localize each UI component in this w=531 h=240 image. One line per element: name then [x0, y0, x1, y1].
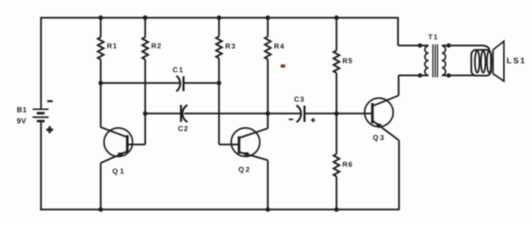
- wire: secondary top to speaker: [449, 46, 490, 52]
- wire: C1 to R3 bottom: [184, 82, 220, 84]
- wire: R1 top lead: [100, 18, 102, 38]
- wire: C2 to Q2 collector node (crosses Q2 base wire, no connection): [184, 113, 268, 115]
- wire: left column bottom (battery to bottom rail): [40, 122, 42, 211]
- wire: secondary bottom to speaker: [449, 74, 475, 76]
- resistor R2: [142, 37, 148, 59]
- wire: R5 bottom lead: [336, 73, 338, 114]
- top supply rail (negative): [40, 17, 398, 19]
- label R1: [107, 43, 116, 48]
- wire: R1 bottom to C1: [101, 82, 180, 84]
- wire: R2 top lead: [144, 18, 146, 38]
- capacitor C1 (curved + straight plate): [176, 76, 183, 92]
- node: top rail / R5 junction: [334, 15, 339, 20]
- label B1: [17, 107, 26, 112]
- wire: left column top (battery to top rail): [40, 17, 42, 109]
- Q1 emitter arrow (PNP, points to base bar): [118, 152, 125, 157]
- node: R3 bottom / C1 / Q2 base: [217, 81, 222, 86]
- speaker LS1 voice-coil body: [471, 50, 491, 76]
- node: Q2 emitter / bottom rail: [266, 207, 271, 212]
- resistor R3: [216, 37, 222, 59]
- transistor Q3 (PNP, base left): [365, 98, 394, 141]
- bottom supply rail (positive): [40, 209, 399, 211]
- wire: Q1 emitter to bottom rail: [101, 151, 128, 209]
- wire: Q1 collector to R1/C1 node: [101, 83, 128, 138]
- transformer T1 core: [433, 44, 438, 77]
- transistor Q1 (PNP, base right): [104, 128, 133, 175]
- wire: top rail to transformer primary top: [398, 17, 420, 46]
- wire: R5 top lead: [336, 18, 338, 51]
- node: top rail / R4 junction: [266, 15, 271, 20]
- node: R6 bottom / bottom rail: [334, 207, 339, 212]
- Q3 emitter arrow (PNP, points to base bar): [375, 122, 382, 128]
- resistor R4: [265, 37, 271, 60]
- node: Q1 emitter / bottom rail: [98, 207, 103, 212]
- wire: Q2 collector node to C3: [268, 113, 301, 115]
- wire: Q1 base lead and down from R2/C2 node: [127, 114, 145, 145]
- node: R5 bottom / R6 top / C3 / Q3 base: [334, 111, 339, 116]
- C3 plus polarity sign: [311, 118, 315, 122]
- wire: Q3 emitter to bottom rail right end: [372, 121, 399, 211]
- transformer T1 secondary winding: [442, 46, 449, 76]
- capacitor C2 (straight + curved plate): [181, 105, 187, 122]
- red mark (stray ink): [281, 64, 286, 67]
- wire: R1 bottom lead: [100, 60, 102, 84]
- transistor Q2 (PNP, base left): [231, 128, 260, 173]
- capacitor C3 (electrolytic, curved + straight plate): [296, 105, 304, 122]
- C3 minus polarity sign: [289, 118, 293, 120]
- label R6: [343, 162, 352, 167]
- wire: R6 bottom lead: [336, 177, 338, 210]
- label T1: [428, 34, 437, 39]
- resistor R6: [334, 154, 340, 177]
- label R2: [152, 43, 161, 48]
- speaker LS1 cone: [493, 41, 504, 81]
- Q2 emitter arrow (PNP, points to base bar): [241, 152, 248, 157]
- label R3: [226, 44, 235, 49]
- battery B1 9V: [33, 109, 49, 121]
- battery plus sign: [46, 126, 53, 133]
- wire: Q2 emitter to bottom rail: [239, 152, 268, 210]
- label C3: [294, 97, 303, 102]
- label LS1: [507, 58, 524, 64]
- wire: Q2 collector to R4/C2/C3 node: [239, 114, 268, 139]
- node: R1 bottom / C1 / Q1 collector: [98, 81, 103, 86]
- wire: R4 top lead: [267, 18, 269, 37]
- label 9V: [17, 118, 26, 123]
- wire: R3 top lead: [218, 18, 220, 37]
- node: top rail / R2 junction: [143, 15, 148, 20]
- transformer terminal dots: [418, 43, 451, 77]
- node: top rail / R1 junction: [98, 15, 103, 20]
- label C2: [178, 126, 187, 131]
- wire: Q3 collector to transformer primary bottom: [372, 75, 420, 106]
- transformer T1 primary winding: [420, 46, 429, 76]
- node: R4 bottom / C2 / C3 / Q2 collector: [266, 111, 271, 116]
- wire: Q2 base lead and down from R3/C1 node: [219, 83, 239, 145]
- resistor R1: [98, 37, 104, 59]
- resistor R5: [334, 50, 340, 73]
- label R4: [274, 44, 284, 49]
- wire: R6 top lead: [336, 114, 338, 155]
- node: top rail / R3 junction: [217, 15, 222, 20]
- speaker LS1 coil turns: [475, 51, 492, 73]
- label R5: [343, 58, 352, 63]
- node: R2 bottom / C2 / Q1 base: [143, 111, 148, 116]
- wire: R4 bottom lead: [267, 59, 269, 113]
- label C1: [173, 67, 183, 72]
- wire: R2 bottom node to C2: [145, 113, 181, 115]
- wire: C3 to Q3 base (node at R5/R6): [305, 113, 373, 115]
- wire: R2 bottom lead (crosses C1 line, no connection): [144, 60, 146, 114]
- wire: R3 bottom lead: [218, 58, 220, 83]
- battery minus sign: [47, 100, 53, 102]
